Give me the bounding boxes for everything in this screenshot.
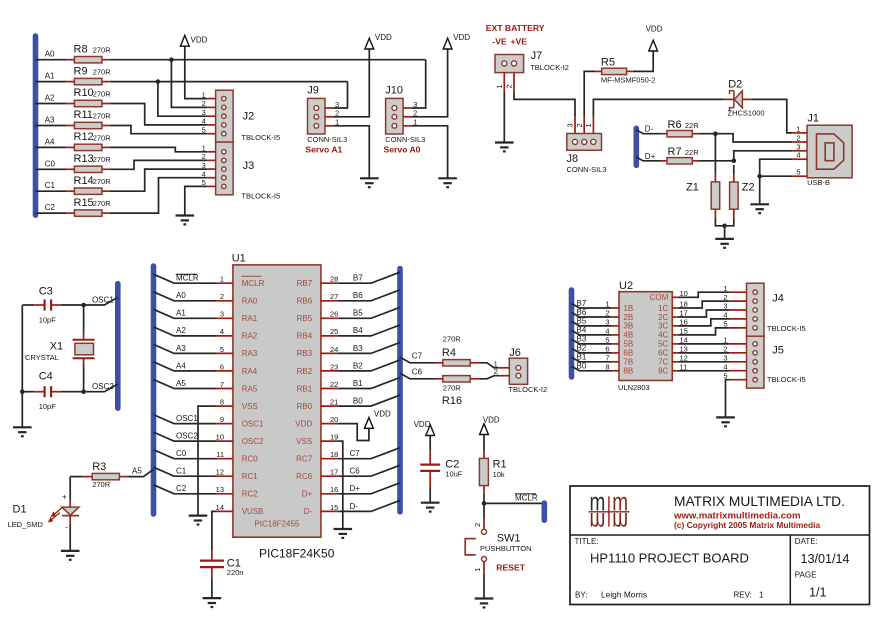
svg-text:D-: D- xyxy=(350,502,359,511)
svg-text:J8: J8 xyxy=(567,153,579,165)
wire net B6 to U2 xyxy=(572,313,612,318)
svg-text:1: 1 xyxy=(584,123,593,127)
svg-text:2C: 2C xyxy=(658,313,668,322)
capacitor C4 10pF xyxy=(34,370,61,411)
svg-text:14: 14 xyxy=(216,503,224,512)
junction zener ground xyxy=(722,224,727,229)
svg-text:10pF: 10pF xyxy=(39,315,57,324)
svg-text:J5: J5 xyxy=(772,345,784,357)
svg-text:A4: A4 xyxy=(45,137,55,146)
svg-text:VDD: VDD xyxy=(483,416,500,425)
ic U2 ULN2803 body xyxy=(618,280,672,392)
wire OSC1 net xyxy=(22,304,34,306)
wire J9 pin2 to VDD xyxy=(334,49,370,117)
svg-text:B2: B2 xyxy=(353,361,363,370)
svg-text:ZHCS1000: ZHCS1000 xyxy=(728,109,765,118)
svg-text:X1: X1 xyxy=(50,340,63,352)
wire U1 pin14 VUSB to C1 xyxy=(212,511,216,549)
wire net B3 from U1 pin 24 xyxy=(338,342,400,353)
wire net C0 to U1 pin 11 xyxy=(154,450,216,459)
svg-text:270R: 270R xyxy=(443,383,462,392)
svg-text:4: 4 xyxy=(723,362,727,371)
svg-text:12: 12 xyxy=(216,468,224,477)
svg-text:EXT BATTERY: EXT BATTERY xyxy=(486,23,545,33)
wire R5 to VDD xyxy=(633,51,653,72)
svg-text:220n: 220n xyxy=(227,568,244,577)
wire net B1 from U1 pin 22 xyxy=(338,378,400,389)
ic U1 pins xyxy=(216,275,339,516)
svg-text:MCLR: MCLR xyxy=(242,279,265,288)
wire net B2 to U2 xyxy=(572,348,612,353)
svg-text:19: 19 xyxy=(330,433,338,442)
resistor R3 270R xyxy=(83,461,129,489)
svg-text:B5: B5 xyxy=(577,317,587,326)
wire A0 to J2 pin2 xyxy=(171,60,207,108)
svg-text:C1: C1 xyxy=(45,181,56,190)
svg-text:2: 2 xyxy=(575,123,584,127)
svg-text:A5: A5 xyxy=(132,467,142,476)
svg-text:7: 7 xyxy=(220,380,224,389)
svg-text:OSC2: OSC2 xyxy=(242,437,264,446)
svg-text:B1: B1 xyxy=(577,353,587,362)
svg-text:13/01/14: 13/01/14 xyxy=(801,552,850,566)
svg-text:7C: 7C xyxy=(658,358,668,367)
junction shield xyxy=(757,174,762,179)
svg-text:RA2: RA2 xyxy=(242,332,258,341)
wire U2 4C to J4 pin5 xyxy=(678,328,729,335)
svg-text:B3: B3 xyxy=(353,344,363,353)
svg-text:TBLOCK-I5: TBLOCK-I5 xyxy=(767,375,806,384)
svg-text:3B: 3B xyxy=(623,322,633,331)
svg-text:R13: R13 xyxy=(74,153,94,165)
ground xyxy=(334,529,353,538)
wire net A1 to U1 pin 3 xyxy=(154,309,216,318)
svg-text:B0: B0 xyxy=(353,396,363,405)
wire net B0 to U2 xyxy=(572,366,612,371)
svg-text:VDD: VDD xyxy=(191,35,208,44)
svg-text:A3: A3 xyxy=(176,344,186,353)
svg-text:11: 11 xyxy=(216,450,224,459)
svg-text:3: 3 xyxy=(723,354,727,363)
svg-text:C4: C4 xyxy=(39,370,53,382)
svg-text:RB3: RB3 xyxy=(297,349,313,358)
resistor R12 270R xyxy=(66,131,111,150)
bus U1 left xyxy=(151,266,157,514)
svg-text:OSC1: OSC1 xyxy=(176,414,198,423)
wire net C1 xyxy=(36,190,67,192)
svg-text:Servo A0: Servo A0 xyxy=(384,145,421,155)
svg-text:VUSB: VUSB xyxy=(242,507,264,516)
ground xyxy=(716,417,735,426)
wire J5 pin5 to ground xyxy=(726,380,730,418)
svg-text:C6: C6 xyxy=(412,368,423,377)
svg-text:5: 5 xyxy=(220,345,224,354)
connector J7 TBLOCK-I2 xyxy=(495,55,524,93)
svg-text:23: 23 xyxy=(330,362,338,371)
wire net B4 to U2 xyxy=(572,330,612,335)
svg-text:28: 28 xyxy=(330,275,338,284)
svg-text:R8: R8 xyxy=(74,43,88,55)
ground xyxy=(13,427,32,436)
wire J8 pin1 to D2 xyxy=(593,99,723,117)
svg-text:USB-B: USB-B xyxy=(807,178,830,187)
svg-text:270R: 270R xyxy=(93,68,112,77)
svg-text:5C: 5C xyxy=(658,340,668,349)
svg-text:20: 20 xyxy=(330,415,338,424)
svg-text:R7: R7 xyxy=(668,146,682,158)
svg-text:10pF: 10pF xyxy=(39,402,57,411)
svg-text:13: 13 xyxy=(216,485,224,494)
wire net A0 xyxy=(36,59,67,61)
svg-text:A3: A3 xyxy=(45,116,55,125)
svg-text:J9: J9 xyxy=(307,84,319,96)
wire U2 2C to J4 pin3 xyxy=(678,310,729,317)
diode D2 ZHCS1000 xyxy=(723,79,765,118)
junction A0 xyxy=(169,57,174,62)
svg-text:270R: 270R xyxy=(93,199,112,208)
bus D+/D- xyxy=(633,128,639,165)
svg-text:C0: C0 xyxy=(45,159,56,168)
svg-text:B0: B0 xyxy=(577,362,587,371)
svg-text:R15: R15 xyxy=(74,197,94,209)
wire J7 pin2 to J8 pin3 xyxy=(514,92,575,117)
svg-text:1: 1 xyxy=(202,90,206,99)
svg-text:B6: B6 xyxy=(353,291,363,300)
svg-text:2: 2 xyxy=(505,84,514,88)
wire net B0 from U1 pin 21 xyxy=(338,395,400,406)
svg-text:TBLOCK-I2: TBLOCK-I2 xyxy=(508,385,547,394)
wire MCLR net xyxy=(484,502,542,504)
svg-text:J7: J7 xyxy=(531,50,543,62)
svg-text:LED_SMD: LED_SMD xyxy=(8,520,44,529)
svg-text:MCLR: MCLR xyxy=(176,274,199,283)
svg-text:22R: 22R xyxy=(685,121,699,130)
svg-text:R6: R6 xyxy=(668,119,682,131)
svg-text:5: 5 xyxy=(723,320,727,329)
svg-text:C3: C3 xyxy=(39,285,53,297)
wire net B2 from U1 pin 23 xyxy=(338,360,400,371)
wire net B6 from U1 pin 27 xyxy=(338,290,400,301)
svg-text:TBLOCK-I5: TBLOCK-I5 xyxy=(241,133,280,142)
svg-text:C2: C2 xyxy=(45,203,56,212)
svg-text:8: 8 xyxy=(220,397,224,406)
svg-text:A2: A2 xyxy=(176,326,186,335)
wire VDD to J2 pin1 xyxy=(185,46,207,98)
svg-text:HP1110 PROJECT BOARD: HP1110 PROJECT BOARD xyxy=(590,551,749,566)
wire J3 pin5 to ground xyxy=(185,186,207,215)
junction MCLR xyxy=(482,501,487,506)
wire D2 to J1 pin1 xyxy=(751,99,792,132)
ground xyxy=(750,204,769,213)
svg-text:22R: 22R xyxy=(685,148,699,157)
svg-text:270R: 270R xyxy=(93,133,112,142)
svg-text:J1: J1 xyxy=(807,112,819,124)
resistor R5 MF-MSMF050-2 xyxy=(596,56,656,84)
wire U2 3C to J4 pin4 xyxy=(678,319,729,326)
svg-text:-VE: -VE xyxy=(492,37,507,47)
bus analog-nets left xyxy=(33,36,39,215)
svg-text:U2: U2 xyxy=(619,280,633,292)
wire net A2 to U1 pin 4 xyxy=(154,327,216,336)
wire net B5 to U2 xyxy=(572,321,612,326)
bus MCLR stub xyxy=(541,503,547,520)
svg-text:J3: J3 xyxy=(243,160,255,172)
wire net C0 xyxy=(36,168,67,170)
resistor R6 22R xyxy=(661,119,699,137)
svg-text:RA0: RA0 xyxy=(242,297,258,306)
svg-text:RB0: RB0 xyxy=(297,402,313,411)
resistor R8 270R xyxy=(66,43,111,63)
svg-text:270R: 270R xyxy=(93,46,112,55)
svg-text:(c) Copyright 2005 Matrix Mult: (c) Copyright 2005 Matrix Multimedia xyxy=(674,520,820,530)
svg-text:1: 1 xyxy=(796,124,800,133)
connector J10 CONN-SIL3 Servo A0 xyxy=(386,98,418,134)
power VDD J9 xyxy=(365,33,392,49)
wire net C7 from U1 pin 18 xyxy=(338,448,400,459)
svg-text:OSC1: OSC1 xyxy=(242,419,264,428)
svg-text:U1: U1 xyxy=(232,253,246,265)
svg-text:J2: J2 xyxy=(243,111,255,123)
svg-text:R1: R1 xyxy=(493,459,507,471)
svg-text:MF-MSMF050-2: MF-MSMF050-2 xyxy=(601,76,656,85)
resistor R11 270R xyxy=(66,109,111,129)
svg-text:22: 22 xyxy=(330,380,338,389)
svg-text:D+: D+ xyxy=(350,484,361,493)
logo matrix multimedia xyxy=(589,487,630,538)
wire OSC2 net xyxy=(22,391,34,393)
svg-text:1/1: 1/1 xyxy=(809,586,827,600)
svg-text:B1: B1 xyxy=(353,379,363,388)
ground xyxy=(421,503,440,512)
svg-text:R4: R4 xyxy=(442,347,456,359)
connector J6 TBLOCK-I2 xyxy=(494,347,548,394)
svg-text:BY:: BY: xyxy=(575,590,587,599)
wire net B7 from U1 pin 28 xyxy=(338,272,400,283)
svg-text:RB5: RB5 xyxy=(297,314,313,323)
wire U2 COM to J4 pin1 xyxy=(678,292,729,297)
resistor R13 270R xyxy=(66,153,111,173)
wire net OSC2 to U1 pin 10 xyxy=(154,432,216,441)
svg-text:2: 2 xyxy=(220,292,224,301)
resistor R16 270R xyxy=(436,376,480,407)
svg-text:RC7: RC7 xyxy=(296,455,313,464)
resistor R9 270R xyxy=(66,65,111,85)
wire crystal ground leg xyxy=(21,305,23,427)
svg-text:4: 4 xyxy=(723,311,727,320)
wire net A4 xyxy=(36,146,67,148)
svg-text:R11: R11 xyxy=(74,109,93,121)
svg-text:1: 1 xyxy=(723,284,727,293)
svg-text:R14: R14 xyxy=(74,175,94,187)
svg-text:DATE:: DATE: xyxy=(795,537,818,546)
svg-text:B7: B7 xyxy=(353,274,363,283)
svg-text:3: 3 xyxy=(723,302,727,311)
svg-text:3: 3 xyxy=(220,310,224,319)
led D1 LED_SMD xyxy=(8,477,80,532)
svg-text:2: 2 xyxy=(723,345,727,354)
svg-text:15: 15 xyxy=(330,503,338,512)
wire net B7 to U2 xyxy=(572,304,612,309)
wire SW1 to ground xyxy=(483,562,485,574)
ic U2 pins xyxy=(605,289,688,376)
wire U2 5C to J5 pin1 xyxy=(678,343,729,345)
resistor R10 270R xyxy=(66,87,111,107)
svg-text:RB1: RB1 xyxy=(297,384,313,393)
svg-text:R16: R16 xyxy=(442,395,462,407)
svg-text:R12: R12 xyxy=(74,131,94,143)
svg-text:1: 1 xyxy=(220,275,224,284)
svg-text:VDD: VDD xyxy=(295,419,312,428)
power VDD R5 xyxy=(646,25,663,52)
svg-text:6C: 6C xyxy=(658,349,668,358)
svg-text:4C: 4C xyxy=(658,331,668,340)
ground xyxy=(715,239,734,248)
svg-text:VDD: VDD xyxy=(453,33,470,42)
svg-text:TBLOCK-I2: TBLOCK-I2 xyxy=(530,63,569,72)
connector J1 USB-B xyxy=(792,112,852,187)
power VDD top-left xyxy=(180,35,207,46)
wire A1 to J2 pin3 xyxy=(158,82,207,117)
ground xyxy=(176,216,195,225)
wire J1 pin4/pin5 to ground xyxy=(760,159,793,176)
junction D+ / Z2 xyxy=(732,159,737,164)
svg-text:PUSHBUTTON: PUSHBUTTON xyxy=(480,544,532,553)
svg-text:270R: 270R xyxy=(92,480,111,489)
svg-text:OSC2: OSC2 xyxy=(176,432,198,441)
svg-text:SW1: SW1 xyxy=(497,532,521,544)
wire net A0 to U1 pin 2 xyxy=(154,292,216,301)
svg-text:25: 25 xyxy=(330,327,338,336)
wire U1 pin8 VSS to ground xyxy=(198,406,216,515)
svg-text:TBLOCK-I5: TBLOCK-I5 xyxy=(767,324,806,333)
svg-text:D-: D- xyxy=(304,507,313,516)
wire U2 7C to J5 pin3 xyxy=(678,361,729,363)
svg-text:1: 1 xyxy=(495,84,504,88)
svg-text:B2: B2 xyxy=(577,344,587,353)
wire R4 to J6 pin1 xyxy=(479,363,499,368)
wire J9 pin1 to ground xyxy=(334,126,370,179)
switch SW1 PUSHBUTTON xyxy=(465,503,531,572)
junction A1 xyxy=(156,79,161,84)
svg-text:D+: D+ xyxy=(302,490,313,499)
wire net A5 to U1 pin 7 xyxy=(154,380,216,389)
resistor R1 10k xyxy=(479,435,506,494)
wire net C2 to U1 pin 13 xyxy=(154,485,216,494)
bus crystal xyxy=(115,284,121,408)
svg-text:R5: R5 xyxy=(601,56,615,68)
wire C7 net to R4 xyxy=(400,357,436,363)
svg-text:CONN-SIL3: CONN-SIL3 xyxy=(307,135,347,144)
power VDD J10 xyxy=(443,33,470,49)
svg-text:PAGE: PAGE xyxy=(795,570,817,579)
svg-text:1: 1 xyxy=(473,567,482,571)
svg-text:1: 1 xyxy=(723,336,727,345)
svg-text:27: 27 xyxy=(330,292,338,301)
wire net B3 to U2 xyxy=(572,339,612,344)
wire C6 net to R16 xyxy=(400,373,436,379)
wire net A3 to U1 pin 5 xyxy=(154,344,216,353)
svg-text:CONN-SIL3: CONN-SIL3 xyxy=(385,135,425,144)
wire J10 pin1 to ground xyxy=(412,126,448,179)
wire J9 pin3 to A1 xyxy=(334,82,348,108)
svg-text:270R: 270R xyxy=(443,335,462,344)
svg-text:C2: C2 xyxy=(176,484,187,493)
svg-text:B4: B4 xyxy=(353,326,363,335)
junction OSC2/C3 leg xyxy=(20,389,25,394)
svg-text:RC0: RC0 xyxy=(242,455,259,464)
svg-text:RA4: RA4 xyxy=(242,367,258,376)
junction OSC1/X1 xyxy=(81,303,86,308)
svg-text:270R: 270R xyxy=(93,155,112,164)
svg-text:A2: A2 xyxy=(45,94,55,103)
wire J7 pin1 to ground xyxy=(503,92,505,143)
crystal X1 xyxy=(25,305,95,392)
svg-text:VDD: VDD xyxy=(414,420,431,429)
title block frame xyxy=(570,486,870,605)
wire J10 pin2 to VDD xyxy=(412,49,448,117)
svg-text:RA1: RA1 xyxy=(242,314,258,323)
svg-text:C7: C7 xyxy=(350,449,361,458)
svg-text:R10: R10 xyxy=(74,87,94,99)
svg-text:270R: 270R xyxy=(93,89,112,98)
ground xyxy=(360,178,379,187)
power VDD R1 xyxy=(480,416,500,435)
svg-text:B5: B5 xyxy=(353,309,363,318)
svg-text:TITLE:: TITLE: xyxy=(575,537,599,546)
wire net MCLR to U1 pin 1 xyxy=(154,274,216,283)
svg-text:+VE: +VE xyxy=(511,37,528,47)
capacitor C3 10pF xyxy=(34,285,61,324)
svg-text:10uF: 10uF xyxy=(445,470,463,479)
svg-text:REV:: REV: xyxy=(734,590,752,599)
svg-text:MATRIX MULTIMEDIA LTD.: MATRIX MULTIMEDIA LTD. xyxy=(674,494,845,509)
connector J2 TBLOCK-I5 xyxy=(202,90,233,142)
svg-text:4: 4 xyxy=(202,117,206,126)
svg-text:16: 16 xyxy=(330,485,338,494)
svg-text:Z1: Z1 xyxy=(686,181,699,193)
wire C2 to ground xyxy=(429,487,431,503)
wire net B1 to U2 xyxy=(572,357,612,362)
svg-text:8C: 8C xyxy=(658,367,668,376)
bus U2 left xyxy=(569,290,575,377)
svg-text:A1: A1 xyxy=(176,309,186,318)
wire A5 net R3 xyxy=(70,476,83,478)
ground xyxy=(189,516,208,525)
svg-text:Z2: Z2 xyxy=(742,181,755,193)
wire J8 pin2 to R5 xyxy=(584,71,595,117)
wire U2 8C to J5 pin4 xyxy=(678,370,729,372)
ic U1 PIC18F2455 body xyxy=(232,253,321,538)
svg-text:2B: 2B xyxy=(623,313,633,322)
svg-text:VSS: VSS xyxy=(296,437,312,446)
wire net OSC1 to U1 pin 9 xyxy=(154,415,216,424)
svg-text:Servo A1: Servo A1 xyxy=(305,145,342,155)
svg-text:3: 3 xyxy=(202,108,206,117)
svg-text:5: 5 xyxy=(202,126,206,135)
svg-text:8B: 8B xyxy=(623,367,633,376)
svg-text:9: 9 xyxy=(220,415,224,424)
svg-text:24: 24 xyxy=(330,345,338,354)
power VDD C2 xyxy=(414,420,435,435)
wire R7 to J1 pin3 xyxy=(698,151,792,161)
svg-text:-: - xyxy=(65,523,68,532)
svg-text:2: 2 xyxy=(494,367,498,376)
svg-text:1B: 1B xyxy=(623,304,633,313)
svg-text:2: 2 xyxy=(202,99,206,108)
svg-text:A5: A5 xyxy=(176,379,186,388)
svg-text:5B: 5B xyxy=(623,340,633,349)
wire net B5 from U1 pin 26 xyxy=(338,307,400,318)
